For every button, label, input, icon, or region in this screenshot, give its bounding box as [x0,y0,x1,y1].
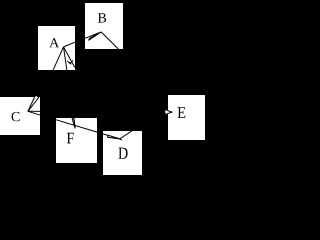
edge A to B [64,32,102,47]
node E box [168,95,205,140]
edge A to C [28,47,64,111]
node D box [103,131,142,175]
label C [12,112,20,121]
arrowhead at F [72,118,75,128]
node C box [0,97,40,135]
edge B stub to bottom [101,32,119,50]
barb stroke 2 in A [69,61,73,64]
edge A to F [64,47,76,128]
arrowhead at C [28,95,39,111]
barb stroke 1 in A [67,61,71,64]
edge C to D [28,111,120,139]
edge C to E [28,110,172,113]
label F [67,133,74,144]
node F box [56,118,97,163]
label A [49,38,59,47]
edge A down-right stub [64,47,75,68]
node B box [85,3,123,49]
nub past D junction [120,139,122,140]
label D [118,148,127,159]
node A box [38,26,75,70]
label B [98,13,106,22]
label E [178,107,186,118]
arrowhead at E [165,109,172,114]
arrowhead at D [108,135,120,139]
arrowhead at B [89,32,102,40]
edge D to E [120,112,172,139]
